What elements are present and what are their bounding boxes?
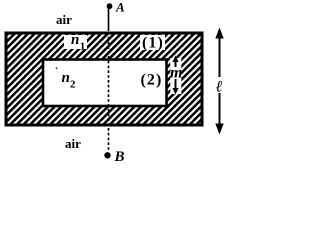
svg-text:(1): (1) [142, 35, 164, 52]
svg-text:ℓ: ℓ [215, 79, 223, 96]
svg-text:B: B [114, 149, 125, 165]
svg-text:2: 2 [70, 78, 76, 90]
svg-text:m: m [170, 65, 182, 82]
svg-text:n: n [62, 70, 70, 86]
svg-text:A: A [115, 0, 125, 15]
svg-text:(2): (2) [141, 72, 163, 89]
svg-text:air: air [65, 136, 81, 151]
svg-text:n: n [71, 32, 79, 48]
svg-text:air: air [56, 12, 72, 27]
svg-text:1: 1 [80, 40, 86, 52]
